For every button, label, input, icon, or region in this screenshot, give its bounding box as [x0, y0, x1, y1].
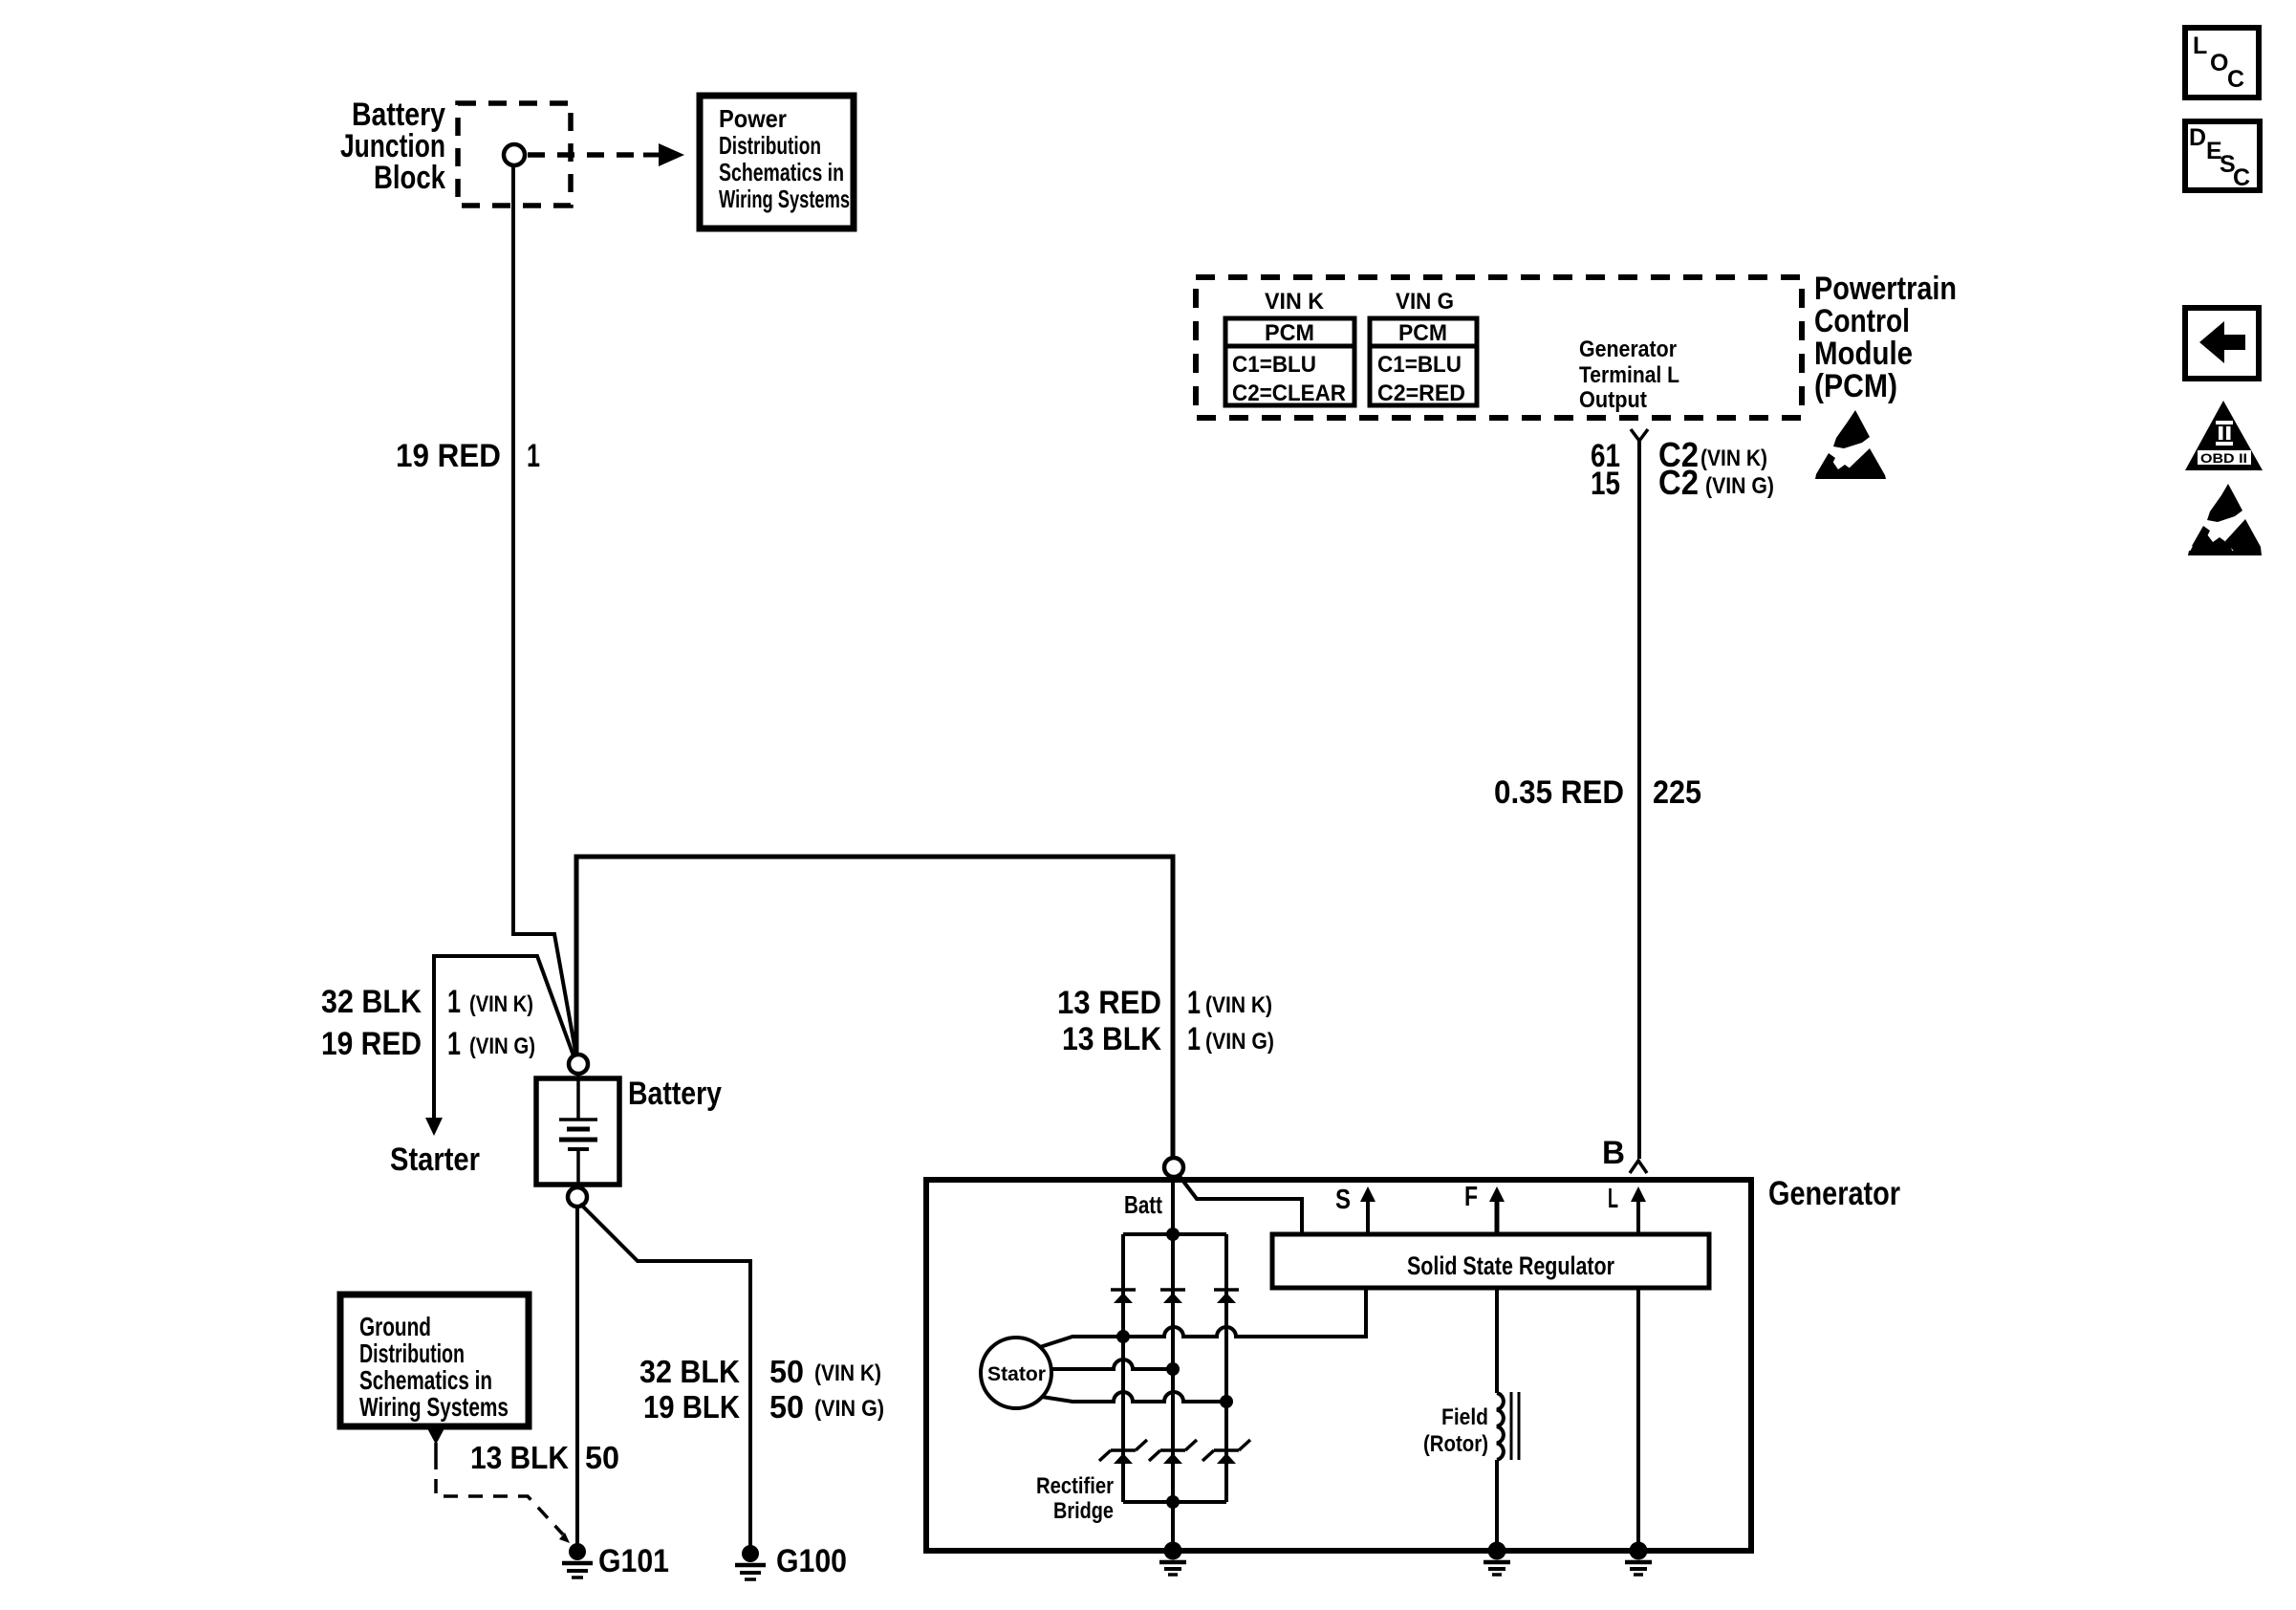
svg-text:1: 1: [447, 1026, 461, 1062]
icon OBD II triangle: [2185, 401, 2263, 470]
wire L terminal to ground: [1636, 1288, 1640, 1548]
svg-text:G101: G101: [598, 1543, 669, 1579]
wire to starter: [434, 956, 574, 1119]
terminal S arrow: [1335, 1185, 1375, 1234]
svg-text:Generator: Generator: [1579, 337, 1677, 362]
ground rectifier: [1159, 1542, 1186, 1576]
svg-text:(VIN K): (VIN K): [814, 1360, 881, 1386]
ground G101: [562, 1543, 593, 1577]
icon ESD triangle: [2188, 484, 2262, 555]
svg-text:B: B: [1602, 1135, 1625, 1171]
svg-text:PCM: PCM: [1398, 320, 1447, 346]
svg-text:50: 50: [585, 1440, 619, 1475]
rectifier top bus: [1123, 1232, 1226, 1236]
svg-text:(VIN G): (VIN G): [469, 1033, 535, 1059]
wire battery negative to G101: [575, 1207, 579, 1545]
battery negative node: [568, 1187, 587, 1207]
rectifier vertical 2: [1171, 1234, 1175, 1502]
label 32 BLK 1 (VIN K): [321, 984, 533, 1020]
wire 19 RED from junction block to battery: [513, 165, 576, 1056]
svg-text:S: S: [1335, 1185, 1351, 1215]
svg-text:13 BLK: 13 BLK: [470, 1440, 569, 1475]
ESD triangle near PCM: [1815, 410, 1886, 479]
svg-text:Module: Module: [1814, 336, 1913, 372]
svg-text:C2=CLEAR: C2=CLEAR: [1232, 381, 1346, 406]
terminal L arrow: [1608, 1184, 1646, 1234]
ground G100: [735, 1545, 766, 1579]
wire bus to ground: [1171, 1502, 1175, 1548]
junction dot phase 1: [1116, 1330, 1130, 1343]
svg-text:(VIN G): (VIN G): [814, 1396, 884, 1422]
label 13 BLK 1 (VIN G): [1062, 1021, 1274, 1057]
battery B1: [536, 1074, 619, 1187]
svg-text:Wiring Systems: Wiring Systems: [359, 1392, 509, 1422]
svg-text:19 RED: 19 RED: [396, 438, 501, 474]
junction block terminal node: [504, 144, 525, 165]
rectifier vertical 3: [1224, 1234, 1228, 1502]
wire 0.35 RED PCM to generator L: [1637, 441, 1641, 1159]
svg-text:1: 1: [1187, 985, 1201, 1021]
svg-text:Schematics in: Schematics in: [359, 1365, 492, 1395]
svg-text:Schematics in: Schematics in: [719, 158, 844, 186]
svg-text:C1=BLU: C1=BLU: [1377, 352, 1462, 378]
svg-text:D: D: [2189, 124, 2206, 151]
battery junction block (dashed box): [458, 103, 571, 206]
svg-text:(VIN K): (VIN K): [469, 991, 533, 1017]
svg-text:Generator: Generator: [1768, 1175, 1900, 1212]
generator box: [926, 1180, 1751, 1551]
wire battery negative to G100: [580, 1204, 750, 1546]
upper diode D1: [1111, 1290, 1136, 1303]
svg-text:Bridge: Bridge: [1053, 1498, 1114, 1524]
dashed reference arrow from ground box to G101: [427, 1428, 570, 1543]
icon back arrow: [2185, 308, 2259, 379]
rectifier bottom bus: [1123, 1500, 1226, 1504]
icon LOC: [2185, 28, 2259, 98]
junction dot bottom bus: [1166, 1495, 1180, 1509]
svg-text:VIN K: VIN K: [1265, 289, 1325, 315]
wire field to ground: [1495, 1460, 1499, 1548]
label 19 RED 1: [396, 438, 540, 474]
svg-text:Wiring Systems: Wiring Systems: [719, 185, 850, 213]
svg-text:0.35 RED: 0.35 RED: [1494, 774, 1624, 811]
lower diode D6: [1202, 1440, 1250, 1464]
pin labels 61 C2 (VIN K): [1591, 435, 1767, 474]
label 32 BLK 50 (VIN K): [639, 1354, 881, 1389]
svg-text:225: 225: [1653, 774, 1701, 811]
junction dot: [1166, 1228, 1180, 1241]
svg-text:PCM: PCM: [1265, 320, 1314, 346]
svg-text:1: 1: [527, 438, 540, 474]
label Field (Rotor): [1423, 1404, 1488, 1457]
stator phase 3 wire: [1042, 1392, 1226, 1402]
rectifier vertical 1: [1121, 1234, 1125, 1502]
Battery Junction Block label: [340, 97, 445, 196]
svg-text:OBD II: OBD II: [2200, 450, 2247, 466]
wire Batt node into generator: [1171, 1177, 1175, 1234]
svg-text:Battery: Battery: [628, 1076, 722, 1112]
svg-text:Distribution: Distribution: [359, 1338, 465, 1368]
generator B connector chevron: [1630, 1161, 1647, 1173]
label 0.35 RED 225: [1494, 774, 1701, 811]
svg-text:32 BLK: 32 BLK: [639, 1354, 740, 1389]
wire Batt sense to regulator: [1179, 1175, 1302, 1234]
field coil L1: [1497, 1393, 1504, 1460]
upper diode D3: [1214, 1290, 1239, 1303]
svg-text:G100: G100: [776, 1543, 847, 1579]
stator circle: [981, 1338, 1051, 1408]
svg-text:1: 1: [1187, 1021, 1201, 1057]
svg-text:(VIN G): (VIN G): [1205, 1029, 1274, 1055]
terminal F arrow: [1464, 1182, 1505, 1234]
svg-text:32 BLK: 32 BLK: [321, 984, 422, 1020]
svg-text:Output: Output: [1579, 387, 1647, 413]
solid state regulator box: [1272, 1234, 1709, 1288]
lower diode D4: [1099, 1440, 1147, 1464]
svg-text:Powertrain: Powertrain: [1814, 271, 1957, 307]
svg-text:C2: C2: [1658, 463, 1699, 502]
label 13 BLK 50: [470, 1440, 619, 1475]
svg-text:Terminal L: Terminal L: [1579, 362, 1679, 388]
svg-text:Power: Power: [719, 104, 787, 133]
svg-text:(VIN G): (VIN G): [1705, 473, 1774, 499]
lower diode D5: [1149, 1440, 1197, 1464]
svg-text:Stator: Stator: [987, 1363, 1046, 1385]
svg-text:1: 1: [447, 984, 461, 1020]
svg-text:Field: Field: [1441, 1404, 1488, 1430]
dashed reference arrow to power distribution: [528, 143, 684, 166]
wire bus battery to generator Batt: [576, 857, 1173, 1159]
svg-text:C1=BLU: C1=BLU: [1232, 352, 1316, 378]
svg-text:13 RED: 13 RED: [1057, 985, 1161, 1021]
label Generator Terminal L Output: [1579, 337, 1679, 413]
label Rectifier Bridge: [1036, 1473, 1114, 1524]
svg-text:Distribution: Distribution: [719, 131, 821, 160]
generator Batt node: [1164, 1158, 1183, 1177]
svg-text:O: O: [2210, 50, 2228, 76]
PCM connector box VIN K: [1225, 318, 1354, 406]
pin labels 15 C2 (VIN G): [1591, 463, 1774, 502]
label Powertrain Control Module (PCM): [1814, 271, 1957, 404]
junction dot phase 2: [1166, 1362, 1180, 1376]
svg-text:(VIN K): (VIN K): [1205, 992, 1272, 1018]
svg-text:C2=RED: C2=RED: [1377, 381, 1465, 406]
svg-text:C: C: [2233, 164, 2250, 191]
label 19 RED 1 (VIN G): [321, 1026, 535, 1062]
svg-text:Starter: Starter: [390, 1142, 480, 1178]
svg-text:19 BLK: 19 BLK: [643, 1389, 740, 1425]
Power Distribution Schematics reference box: [700, 96, 854, 228]
svg-text:13 BLK: 13 BLK: [1062, 1021, 1161, 1057]
PCM dashed box: [1196, 277, 1802, 418]
svg-text:(VIN K): (VIN K): [1700, 446, 1767, 471]
svg-text:Rectifier: Rectifier: [1036, 1473, 1114, 1499]
junction dot phase 3: [1220, 1395, 1233, 1408]
svg-text:L: L: [1608, 1184, 1618, 1214]
svg-text:(PCM): (PCM): [1814, 368, 1897, 404]
label 19 BLK 50 (VIN G): [643, 1389, 884, 1425]
PCM connector chevron: [1631, 429, 1648, 441]
svg-text:L: L: [2193, 33, 2207, 59]
svg-text:VIN G: VIN G: [1396, 289, 1454, 315]
label 13 RED 1 (VIN K): [1057, 985, 1272, 1021]
stator phase 1 wire: [1040, 1288, 1366, 1347]
svg-text:Block: Block: [374, 160, 445, 196]
svg-text:F: F: [1464, 1182, 1478, 1212]
stator phase 2 wire: [1051, 1360, 1173, 1369]
battery positive node: [569, 1055, 588, 1074]
field coil wire from regulator: [1495, 1288, 1499, 1393]
svg-text:Solid State Regulator: Solid State Regulator: [1407, 1251, 1614, 1280]
field core bars: [1510, 1392, 1513, 1460]
svg-text:19 RED: 19 RED: [321, 1026, 422, 1062]
ground field: [1484, 1542, 1510, 1576]
svg-text:15: 15: [1591, 466, 1620, 502]
upper diode D2: [1160, 1290, 1185, 1303]
svg-text:C: C: [2227, 66, 2244, 93]
icon DESC: [2185, 121, 2260, 191]
Ground Distribution Schematics reference box: [340, 1295, 529, 1426]
svg-text:Batt: Batt: [1124, 1190, 1162, 1219]
ground L: [1625, 1542, 1652, 1576]
svg-text:50: 50: [769, 1354, 804, 1389]
svg-text:Ground: Ground: [359, 1312, 431, 1341]
PCM connector box VIN G: [1370, 318, 1477, 406]
svg-text:Control: Control: [1814, 303, 1910, 339]
svg-text:50: 50: [769, 1389, 804, 1425]
svg-text:(Rotor): (Rotor): [1423, 1431, 1488, 1457]
